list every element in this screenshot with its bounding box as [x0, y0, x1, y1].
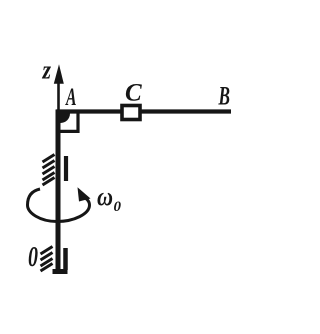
- svg-text:B: B: [218, 82, 230, 111]
- svg-text:ω: ω: [97, 182, 113, 211]
- svg-text:C: C: [125, 80, 142, 107]
- svg-text:0: 0: [28, 241, 38, 273]
- svg-text:0: 0: [114, 199, 122, 215]
- svg-text:A: A: [65, 84, 77, 111]
- svg-text:z: z: [42, 55, 52, 85]
